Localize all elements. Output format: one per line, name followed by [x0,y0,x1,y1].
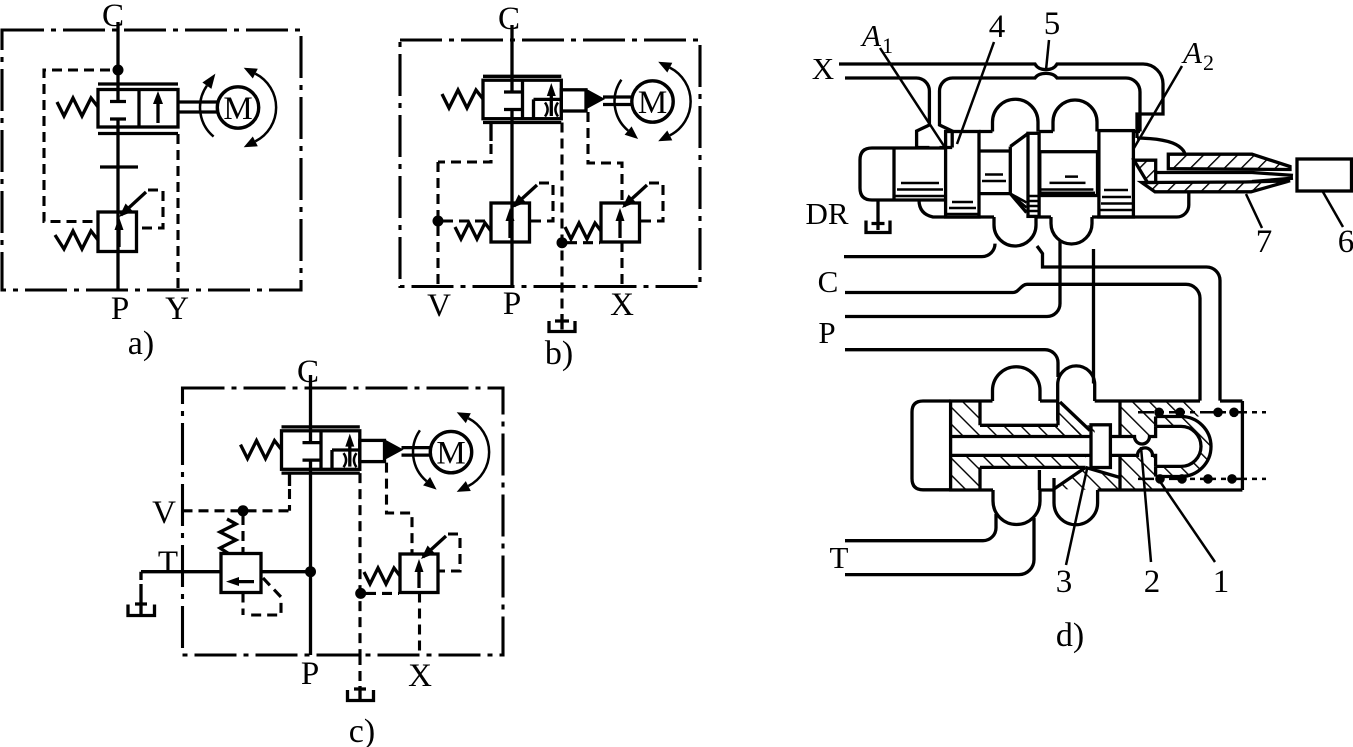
pilot cap divider [892,148,895,200]
seat ring outer boundary [1156,417,1211,477]
spring coil dots bottom [1155,474,1237,484]
main body top edge [949,399,1242,402]
pipe P right wall [1092,249,1095,384]
pilot bore floor right and corner [1092,192,1189,217]
nozzle lower bar (7) [1142,181,1290,192]
wire C vertical (c) [309,375,312,443]
pilot bracket dashed (a) [137,190,164,228]
main top chamber bump 2 [1058,366,1095,421]
cone base stack marks [1028,196,1039,211]
dashed X below border (c) [358,655,361,686]
pipe X lower wall right with venturi [953,73,1141,131]
wire P line below valve (a) [116,119,119,290]
pilot bore floor mid [1036,215,1051,218]
orifice plug mark (a) [100,165,138,168]
seat block edges [1120,401,1242,490]
pipe X upper wall with venturi [839,64,1163,138]
dashed V line (c) [183,509,290,512]
pilot cone base band [1028,133,1039,216]
dashed X line below relief valve 2 (b) [620,242,623,287]
leader line 4 [957,42,994,144]
main bottom chamber bump 2 [1054,490,1098,525]
node dot on V line (c) [238,505,249,516]
svg-text:M: M [223,91,252,127]
node dot on P line (c) [305,566,316,577]
svg-text:DR: DR [805,196,848,231]
seat block hatch upper [1120,401,1200,437]
svg-text:C: C [102,0,124,34]
svg-text:P: P [301,656,319,692]
proportional solenoid triangle [586,90,604,109]
seat block hatch lower [1120,455,1156,490]
pilot top chamber bump 1 [993,99,1039,131]
pilot body right bulge A2 [1137,138,1185,155]
leader line 7 [1246,194,1262,228]
enclosure boundary b [400,40,700,287]
adjust arrow relief valve 1 (b) [514,185,537,206]
svg-text:P: P [503,286,521,322]
spring of main valve a [57,98,98,116]
middle land marks [1041,177,1096,193]
pilot spool neck rod [979,151,1010,194]
pilot top chamber bump 2 [1053,100,1097,132]
svg-text:A: A [860,18,882,53]
stem upper wall with seat notch [1110,426,1155,444]
motor M circle [632,81,673,122]
main body bottom edge [949,488,1242,491]
flow arrow right chamber [550,90,553,116]
pilot spool land 4 [946,132,979,218]
shaft to motor a [178,102,217,112]
relief valve 1 (b) [491,203,530,242]
svg-text:T: T [158,545,178,581]
svg-text:C: C [818,264,839,299]
pipe C bottom wall to spring chamber [845,284,1200,400]
pilot loop dashed below reducing valve (c) [243,578,281,615]
spring of main valve [442,90,483,108]
dashed V line (b) [436,162,439,287]
pipe X lower wall left [845,78,929,148]
pilot bore ceiling saddle [1039,130,1053,133]
pipe C top wall [844,244,995,257]
leader line A2 [1134,66,1182,148]
output line to P with junction (c) [261,570,311,573]
spring on top of reducing valve (c) [220,519,236,554]
svg-text:b): b) [545,335,573,372]
node junction dot (a) [113,65,124,76]
svg-text:5: 5 [1044,6,1061,42]
pilot bracket dashed relief 1 (b) [530,183,554,221]
leader line 5 [1046,40,1049,70]
spring coil dots top [1154,408,1239,418]
spring of relief valve (a) [55,231,98,249]
node dot on X drain line (c) [355,588,366,599]
pipe C inner wall from pilot chamber [1037,246,1220,401]
pipe P bottom wall [845,350,1058,377]
adjust arrow relief valve (a) [121,192,146,215]
pilot bore floor left with corner [919,200,994,217]
spool cross piece [1091,425,1110,468]
pilot bracket dashed relief (c) [438,534,460,571]
adjust arrow relief valve 2 (b) [624,185,647,206]
pilot spool end marks in cap [895,183,944,196]
wire P line below valve (c) [309,460,312,655]
right land marks [1100,190,1132,210]
dashed X drain line from valve (c) [358,473,361,655]
main valve end cap [912,401,951,490]
pilot line solenoid to relief valve 2 (b) [588,112,622,203]
rotation arc right (a) [255,74,276,142]
svg-text:Y: Y [165,291,189,327]
flow arrow in valve a [156,98,159,123]
reducing valve square (c) [221,554,261,593]
spring of relief valve 1 (b) [455,223,491,239]
main stage group [912,366,1266,600]
wire T line (c) [141,570,221,573]
spring of relief valve 2 (b) [565,223,601,239]
svg-text:X: X [812,51,834,86]
seat ring hatch lower [1156,447,1211,477]
pilot dash from dot to relief valve (c) [366,592,399,595]
enclosure boundary c [183,388,504,655]
pilot dash from dot down to reducing valve (c) [241,515,244,553]
svg-text:P: P [818,315,835,350]
throttle box in valve [534,99,562,118]
svg-text:X: X [408,658,432,694]
spring of relief valve (c) [364,568,400,584]
svg-text:C: C [297,354,319,390]
pilot bottom chamber bump 2 [1051,217,1092,244]
sleeve hatch top cone band [1058,402,1095,437]
pilot spool middle land [1040,152,1098,196]
nozzle upper bar (7) [1168,154,1290,169]
pilot stub below valve left (b) [489,123,492,142]
main valve body a [98,84,178,134]
relief valve 2 (b) [601,203,640,242]
adjust arrow relief valve (c) [423,536,446,557]
pipe P top wall [845,240,1060,317]
pilot bracket dashed relief 2 (b) [640,183,664,221]
pilot end cap [860,148,945,200]
sleeve hatch bottom-left [949,455,980,490]
node dot on V line (b) [433,216,444,227]
pipe X channel right wall [940,78,953,148]
left arrow in reducing valve (c) [233,580,254,583]
svg-text:V: V [152,495,176,531]
node dot on drain line (b) [557,237,568,248]
rotation arc left (a) [200,86,214,137]
window walls bottom band [980,467,1086,490]
motor M circle (a) [217,87,258,128]
sleeve hatch top strip [980,425,1095,436]
seat cone top diagonal [1060,402,1090,431]
wire C vertical (b) [510,25,513,92]
sleeve hatch bottom slant piece [1054,467,1120,490]
pilot spool cone [1010,134,1028,213]
svg-text:1: 1 [1213,564,1230,600]
wire P line below valve (b) [510,110,513,287]
seat ring hatch upper [1156,417,1211,447]
DR drain line [876,200,879,230]
leader line 3 [1066,469,1087,565]
svg-text:c): c) [349,713,375,747]
poppet cavity [1156,426,1201,466]
land 4 clearance marks [947,202,978,214]
relief valve X (c) [400,554,438,593]
window walls top band [980,401,1058,425]
valve body [483,75,561,78]
pilot spool right land [1099,131,1134,217]
svg-text:V: V [427,288,451,324]
svg-text:d): d) [1056,617,1084,654]
svg-text:M: M [638,85,667,121]
wire C vertical (a) [116,22,119,101]
pilot dashed line box (a) [44,70,110,222]
main top chamber bump 1 [993,367,1041,401]
pilot stub below valve left (c) [288,473,291,486]
svg-text:C: C [498,1,520,37]
spring centerline bottom [1138,478,1266,481]
tank drain symbol T (c) [128,600,155,616]
proportional main valve with motor (b) [442,62,691,142]
enclosure boundary a [2,30,301,290]
dashed X below relief valve (c) [418,593,421,656]
sleeve hatch bottom strip [980,455,1086,467]
spring centerline top [1138,411,1266,414]
rotation arc left [615,80,629,131]
proportional main valve with motor (c) [241,412,490,492]
pilot line solenoid to relief valve (c) [387,463,413,554]
X channel feet base lines [917,146,953,149]
svg-text:3: 3 [1056,564,1073,600]
connector block [561,90,586,111]
pipe T top wall [845,514,996,541]
svg-text:T: T [830,540,849,575]
nozzle bore [1156,173,1293,182]
sleeve hatch top-left [949,401,980,437]
pilot bottom chamber bump 1 [994,217,1036,246]
leader line 6 [1323,192,1343,227]
flapper plate item 6 [1297,159,1352,191]
seat cone bottom diagonals [1054,467,1120,489]
svg-text:4: 4 [989,9,1006,45]
tank drain symbol X (c) [348,686,374,701]
DR drain symbol [866,221,890,233]
relief valve V1 (a) [98,212,137,252]
svg-text:6: 6 [1338,224,1353,260]
dashed Y line (a) [176,134,179,290]
dashed drain line below main valve (b) [560,123,563,315]
tank drain symbol (b) [549,314,575,332]
main bottom chamber bump 1 [993,490,1040,525]
svg-text:7: 7 [1256,224,1273,260]
main cap divider [949,401,952,490]
leader line 2 [1141,447,1151,562]
svg-text:A: A [1181,35,1203,70]
nozzle seat insert [1134,160,1156,182]
pilot bore ceiling [979,130,1140,133]
blocked port symbols left chamber [504,92,521,110]
rotation arc right [670,68,691,136]
main bore walls / spool stem [951,437,1091,456]
pilot dash from dot to relief valve 1 (b) [443,219,490,222]
svg-text:2: 2 [1203,50,1214,75]
leader line A1 [880,48,944,146]
leader line 1 [1159,480,1215,562]
stem lower wall with seat notch [1110,448,1155,467]
neck marks [982,175,1006,182]
svg-text:X: X [610,287,634,323]
pilot dash from dot to relief valve 2 (b) [567,241,600,244]
svg-text:P: P [111,291,129,327]
shaft to motor [603,97,632,105]
svg-text:2: 2 [1144,564,1161,600]
drain drop line T (c) [139,572,142,600]
pipe T bottom wall [845,518,1034,575]
svg-text:a): a) [128,325,154,362]
